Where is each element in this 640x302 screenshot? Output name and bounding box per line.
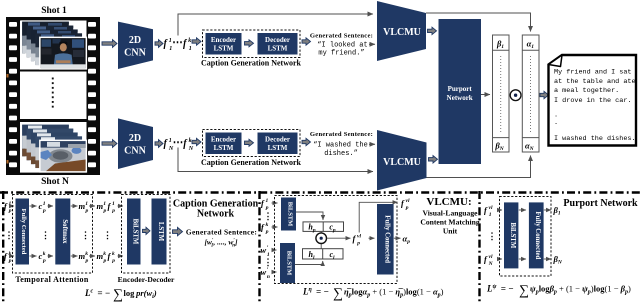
svg-text:f: f <box>484 205 488 215</box>
svg-text:f: f <box>4 201 8 211</box>
wire mf in 1 <box>118 205 124 207</box>
svg-text:β1: β1 <box>553 205 561 217</box>
svg-text:BiLSTM: BiLSTM <box>287 202 294 227</box>
svg-text:Caption Generation Network: Caption Generation Network <box>201 59 302 68</box>
generated sentence (bottom) <box>310 131 373 158</box>
wire purport to beta <box>481 94 490 96</box>
svg-text:Lη = −: Lη = − <box>302 287 329 297</box>
encoder LSTM (top) <box>206 33 242 55</box>
svg-text:f: f <box>183 39 188 50</box>
svg-text:BiLSTM: BiLSTM <box>286 251 293 276</box>
svg-text:1: 1 <box>43 201 46 207</box>
svg-text:p: p <box>42 258 46 264</box>
label cpk <box>39 251 47 264</box>
svg-text:Softmax: Softmax <box>61 219 68 244</box>
svg-text:vl: vl <box>489 205 493 211</box>
input f1vl <box>484 205 493 218</box>
svg-text:f: f <box>261 222 265 232</box>
svg-text:1: 1 <box>112 201 115 207</box>
BiLSTM box (encoder-decoder) <box>127 199 141 265</box>
svg-text:⋮: ⋮ <box>41 230 50 240</box>
svg-text:Purport Network: Purport Network <box>563 198 638 209</box>
svg-text:Unit: Unit <box>443 227 458 236</box>
svg-text:VLCMU: VLCMU <box>383 157 421 168</box>
VLCMU title <box>420 196 479 236</box>
svg-text:Lc = −: Lc = − <box>84 288 110 298</box>
svg-text:f: f <box>4 251 8 261</box>
input fpk <box>4 251 12 264</box>
svg-text:Generated Sentence:: Generated Sentence: <box>186 228 257 237</box>
label fpvl (top out) <box>401 198 410 211</box>
svg-text:⋮: ⋮ <box>264 211 273 221</box>
wire fc to betaN <box>544 258 551 260</box>
svg-text:CNN: CNN <box>124 48 146 59</box>
wire w1 in <box>272 249 277 251</box>
dash-dot divider mid1 <box>258 191 260 302</box>
svg-text:k: k <box>189 138 192 144</box>
svg-text:p: p <box>111 258 115 264</box>
svg-text:n: n <box>267 274 270 280</box>
svg-text:Encoder-Decoder: Encoder-Decoder <box>118 275 175 284</box>
svg-text:LSTM: LSTM <box>214 45 234 53</box>
wire bilstm to fc N <box>519 258 526 260</box>
wire m out k <box>89 255 95 257</box>
svg-text:f: f <box>108 201 112 211</box>
hp cp cell <box>303 222 344 233</box>
svg-text:k: k <box>43 251 46 257</box>
features fN label (bottom) <box>164 137 194 152</box>
wire softmax to mk <box>71 255 78 257</box>
svg-text:1: 1 <box>103 201 106 207</box>
svg-text:1: 1 <box>489 212 492 218</box>
features f1 label (top) <box>164 37 192 52</box>
svg-text:w: w <box>261 267 267 277</box>
odot operator (vlcmu) <box>316 231 327 248</box>
block arrow decoder out (top) <box>302 38 311 45</box>
purport network box <box>439 19 482 164</box>
block arrow bilstm to lstm <box>143 227 151 234</box>
svg-text:f: f <box>261 198 265 208</box>
label mp1 <box>79 201 89 214</box>
temporal attention dashed box <box>13 195 93 274</box>
block arrow CNN to features (top) <box>155 40 163 48</box>
svg-text:my friend.”: my friend.” <box>318 50 364 58</box>
caption generation network dashed box (bottom) <box>203 130 301 157</box>
wire bilstm to fc 1 <box>519 209 526 211</box>
hl cl cell <box>303 249 344 261</box>
block arrow encoder to decoder (top) <box>245 40 254 47</box>
svg-text:BiLSTM: BiLSTM <box>132 219 139 245</box>
svg-text:2D: 2D <box>129 35 141 46</box>
svg-text:f: f <box>164 39 169 50</box>
svg-text:.: . <box>554 119 558 127</box>
svg-text:k: k <box>85 251 88 257</box>
input wn <box>261 267 270 280</box>
svg-text:p: p <box>8 258 12 264</box>
svg-text:“I washed the: “I washed the <box>313 142 368 150</box>
wire fvl branch up and out <box>359 202 397 232</box>
block arrow features to encoder (bottom) <box>192 138 201 145</box>
wire fc to ck <box>30 255 37 257</box>
generated sentence (top) <box>310 32 373 57</box>
svg-text:VLCMU: VLCMU <box>383 27 421 38</box>
BiLSTM box (visual) <box>281 198 296 231</box>
svg-text:⋮: ⋮ <box>264 257 273 267</box>
svg-text:Decoder: Decoder <box>265 36 290 44</box>
output document <box>549 55 637 146</box>
wire fpk in <box>272 226 278 228</box>
block arrow CNN to features (bottom) <box>155 140 163 148</box>
svg-text:at the table and ate: at the table and ate <box>554 78 636 86</box>
svg-text:Fully Connected: Fully Connected <box>534 212 541 260</box>
fully connected box (purport) <box>529 202 544 268</box>
svg-text:αp: αp <box>403 234 411 246</box>
svg-text:VLCMU:: VLCMU: <box>426 196 471 208</box>
svg-text:LSTM: LSTM <box>268 45 288 53</box>
wire bilstm to hp-cp <box>296 212 323 220</box>
svg-text:Encoder: Encoder <box>211 136 236 144</box>
alpha column <box>522 35 539 152</box>
wire VLCMU top to alpha <box>426 13 531 32</box>
wire bilstm-l to hl-cl <box>295 261 323 265</box>
block arrow features to encoder (top) <box>192 38 201 45</box>
svg-text:⋯: ⋯ <box>172 37 183 48</box>
svg-text:⋯: ⋯ <box>173 137 184 148</box>
svg-text:N: N <box>188 146 194 152</box>
label fpvl (mid) <box>353 233 362 246</box>
beta column <box>493 35 510 152</box>
decoder LSTM (bottom) <box>258 133 298 155</box>
wire wn in <box>272 271 277 273</box>
svg-text:1: 1 <box>266 198 269 204</box>
svg-text:∑: ∑ <box>519 284 529 299</box>
svg-text:Lψ = −: Lψ = − <box>486 284 514 294</box>
wire skip features to VLCMU (top) <box>178 14 373 36</box>
svg-text:Shot 1: Shot 1 <box>41 6 67 16</box>
wire mf in k <box>118 255 124 257</box>
wire fc to beta1 <box>544 209 551 211</box>
svg-text:LSTM: LSTM <box>268 144 288 152</box>
encoder-decoder dashed box <box>122 195 171 274</box>
photo stack shot 1 <box>22 21 88 70</box>
wire skip features to VLCMU (bottom) <box>178 148 373 172</box>
svg-text:vl: vl <box>489 254 493 260</box>
block arrow film to CNN (bottom) <box>102 140 117 148</box>
svg-text:p: p <box>42 208 46 214</box>
wire ck to softmax <box>48 255 54 257</box>
svg-text:p: p <box>103 208 107 214</box>
svg-text:p: p <box>85 258 89 264</box>
block arrow encoder to decoder (bottom) <box>245 139 254 146</box>
wire fp1 in <box>10 205 15 207</box>
fully connected box (vlcmu) <box>377 204 394 275</box>
svg-text:Generated Sentence:: Generated Sentence: <box>310 32 373 39</box>
svg-text:f: f <box>164 139 169 150</box>
wire fvl to fc <box>369 237 375 239</box>
svg-text:Visual-Language: Visual-Language <box>423 209 479 218</box>
wire fpk in <box>10 255 15 257</box>
svg-text:I washed the dishes.: I washed the dishes. <box>554 135 636 143</box>
svg-text:f: f <box>353 234 357 244</box>
wire fc to c1 <box>30 205 37 207</box>
wire sentence to VLCMU (top) <box>369 43 375 45</box>
odot operator <box>510 90 521 101</box>
VLCMU (top) <box>377 1 426 61</box>
wire fc to alpha-p <box>394 237 401 239</box>
svg-text:p: p <box>265 229 269 235</box>
svg-text:Temporal Attention: Temporal Attention <box>15 275 89 284</box>
wire softmax to m1 <box>71 205 78 207</box>
input w1 <box>261 245 270 258</box>
decoder LSTM (top) <box>258 33 298 55</box>
svg-text:p: p <box>111 208 115 214</box>
label mp1fp1 <box>97 201 116 214</box>
svg-text:CNN: CNN <box>124 146 146 157</box>
photo stack shot N <box>22 124 88 173</box>
svg-text:I drove in the car.: I drove in the car. <box>554 97 632 105</box>
svg-text:log pr(wi): log pr(wi) <box>124 288 157 300</box>
svg-text:Decoder: Decoder <box>265 136 290 144</box>
wire odot to fvl <box>327 237 351 239</box>
block arrow film to CNN (top) <box>102 40 117 48</box>
wire VLCMU bottom to alpha <box>427 156 531 178</box>
dash-dot divider horizontal <box>0 191 640 193</box>
svg-text:k: k <box>103 251 106 257</box>
wire f1vl in <box>497 209 502 211</box>
svg-text:Encoder: Encoder <box>211 36 236 44</box>
purport inner dashed box <box>500 197 552 277</box>
svg-text:k: k <box>112 251 115 257</box>
svg-text:Caption Generation Network: Caption Generation Network <box>201 158 302 167</box>
VLCMU inner dashed box <box>275 196 398 284</box>
svg-text:N: N <box>488 261 494 267</box>
label mpk <box>79 251 89 264</box>
svg-text:p: p <box>356 241 360 247</box>
svg-text:1: 1 <box>189 46 192 52</box>
svg-text:My friend and I sat: My friend and I sat <box>554 69 632 77</box>
svg-text:′: ′ <box>267 246 269 252</box>
loss Lc formula <box>84 288 157 302</box>
svg-text:Network: Network <box>447 94 473 102</box>
svg-text:⋮: ⋮ <box>488 231 497 241</box>
svg-text:⋮: ⋮ <box>81 230 90 240</box>
svg-text:′: ′ <box>267 268 269 274</box>
svg-text:p: p <box>8 208 12 214</box>
wire c1 to softmax <box>48 205 54 207</box>
film strip <box>6 17 100 175</box>
block arrow to generated sentence <box>173 227 183 235</box>
svg-text:f: f <box>183 139 188 150</box>
dash-dot divider mid2 <box>478 191 480 302</box>
wire sentence to VLCMU (bottom) <box>369 143 375 145</box>
dots between shots <box>52 78 54 108</box>
svg-text:BiLSTM: BiLSTM <box>509 223 516 249</box>
loss Leta formula <box>302 287 444 302</box>
encoder LSTM (bottom) <box>206 133 242 155</box>
svg-text:1: 1 <box>169 138 172 144</box>
svg-text:1: 1 <box>85 201 88 207</box>
svg-text:dishes.”: dishes.” <box>324 150 358 158</box>
label mpkfpk <box>97 251 116 264</box>
input fpk <box>261 222 269 235</box>
svg-text:a meal together.: a meal together. <box>554 87 619 95</box>
wire m out 1 <box>89 205 95 207</box>
caption generation network dashed box (top) <box>203 30 301 58</box>
svg-text:f: f <box>108 251 112 261</box>
svg-text:Fully Connected: Fully Connected <box>20 209 27 255</box>
block arrow VLCMU to purport (top) <box>428 27 437 34</box>
svg-text:“I looked at: “I looked at <box>317 42 367 50</box>
svg-text:Shot N: Shot N <box>41 177 69 187</box>
2D CNN (top) <box>118 22 153 69</box>
BiLSTM box (purport) <box>504 202 518 268</box>
svg-text:w: w <box>261 245 267 255</box>
BiLSTM box (language) <box>280 243 295 283</box>
svg-text:Generated Sentence:: Generated Sentence: <box>310 131 373 138</box>
VLCMU (bottom) <box>377 130 427 191</box>
svg-text:2D: 2D <box>129 133 141 144</box>
label cp1 <box>39 201 47 214</box>
svg-text:LSTM: LSTM <box>157 222 164 242</box>
wire fNvl in <box>497 258 502 260</box>
input fNvl <box>484 254 494 267</box>
svg-text:∑: ∑ <box>333 287 343 302</box>
svg-text:vl: vl <box>406 198 410 204</box>
svg-text:∑: ∑ <box>113 288 123 302</box>
svg-text:Purport: Purport <box>448 85 473 93</box>
svg-text:f: f <box>484 254 488 264</box>
block arrow alpha to document <box>540 91 549 98</box>
input fp1 <box>4 201 12 214</box>
svg-text:p: p <box>85 208 89 214</box>
2D CNN (bottom) <box>118 118 153 169</box>
svg-text:ψplogβp + (1 − ψp)log(1 − βp): ψplogβp + (1 − ψp)log(1 − βp) <box>530 284 631 296</box>
svg-text:p: p <box>103 258 107 264</box>
svg-text:Content Matching: Content Matching <box>420 218 479 227</box>
dash-dot divider left <box>2 191 4 302</box>
svg-text:LSTM: LSTM <box>214 144 234 152</box>
svg-text:Fully Connected: Fully Connected <box>383 215 390 263</box>
LSTM box (encoder-decoder) <box>152 199 167 265</box>
svg-text:βN: βN <box>553 254 563 266</box>
svg-text:vl: vl <box>357 233 361 239</box>
svg-text:k: k <box>188 38 191 44</box>
block arrow decoder out (bottom) <box>302 138 311 145</box>
loss Lpsi formula <box>486 284 631 299</box>
svg-text:k: k <box>266 222 269 228</box>
svg-text:f: f <box>401 198 405 208</box>
svg-text:⋮: ⋮ <box>103 230 112 240</box>
input fp1 <box>261 198 269 211</box>
svg-text:p: p <box>405 205 409 211</box>
block arrow VLCMU to purport (bottom) <box>429 156 438 163</box>
fully connected box (temporal attention) <box>16 199 30 265</box>
svg-text:[w′1, ...., w′n]: [w′1, ...., w′n] <box>204 238 238 249</box>
softmax box <box>55 199 70 265</box>
svg-text:Network: Network <box>197 209 235 220</box>
svg-text:η̅plogαp + (1 − η̅p)log(1 − αp: η̅plogαp + (1 − η̅p)log(1 − αp) <box>344 287 444 299</box>
wire fp1 in <box>272 202 278 204</box>
